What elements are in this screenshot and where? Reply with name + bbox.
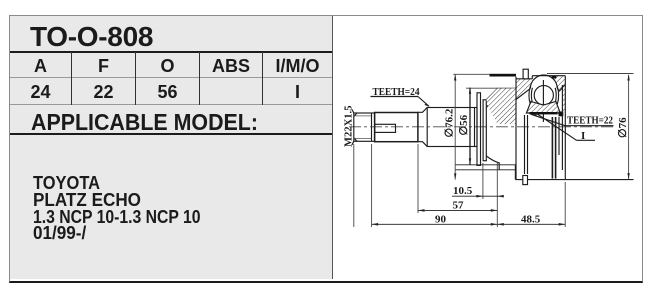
value O 56 [136,83,199,101]
dim 56 top extension [466,87,498,89]
TEETH=22 underline [565,125,614,127]
table line under APPLICABLE MODEL [10,133,332,135]
table line under values row [10,104,332,105]
column divider 2 [135,52,136,105]
thread minor diameter lines [354,115,372,117]
value A 24 [10,83,71,101]
bottom tab [523,176,528,185]
column divider 4 [262,52,263,105]
inner shaft lines [524,115,526,174]
bell top step [531,76,533,79]
bell main top line [532,75,565,77]
table line under header row [10,77,332,78]
svg-text:48.5: 48.5 [521,214,541,226]
mouth groove dark double lines [551,117,553,179]
dim line 48.5 [497,223,565,225]
mid cylinder [427,108,477,147]
header O [136,57,199,75]
keyway slot [375,124,396,132]
leader TEETH=24 slant [418,97,429,107]
extension line from spline end [417,144,419,213]
dim 76 top extension [547,73,634,75]
dim 76 arrows [627,74,629,80]
bell bottom line with dim76 extension [516,179,634,181]
title TO-O-808 [30,23,153,51]
bell mouth face [564,76,566,180]
ball [534,86,553,105]
stub chamfer bottom [354,138,357,142]
cone top slant [486,89,497,100]
step to mid cylinder top [418,108,427,113]
extension line from bell back [496,162,498,227]
svg-text:10.5: 10.5 [453,185,473,197]
svg-text:57: 57 [453,200,465,212]
svg-text:∅76: ∅76 [617,117,629,138]
ball track ceiling arc [530,75,557,88]
svg-text:TEETH=24: TEETH=24 [373,86,420,98]
extension line from thread end [371,144,373,227]
svg-text:M22X1.5: M22X1.5 [343,105,355,147]
dim 76.2 top extension line [453,73,490,75]
dim line 10.5 [452,195,502,197]
hatched cone and back wall section [486,88,516,124]
dim 56 vertical line [469,88,471,165]
thread tick marks at stub face [352,110,354,114]
leader I [535,113,577,141]
boot band (top, black) [490,74,517,77]
header ABS [200,57,262,75]
inner race hatched [526,102,560,114]
svg-text:∅56: ∅56 [458,114,470,135]
svg-text:90: 90 [435,214,447,226]
thread groove [371,113,373,141]
inner race spline dark band [530,112,558,114]
bell outer wall hatched section [516,75,565,111]
threaded stub M22 [354,113,375,141]
extension line from flange face [482,163,484,199]
value F 22 [72,83,135,101]
column divider 3 [199,52,200,105]
APPLICABLE MODEL heading [31,111,258,134]
dim line 90 [372,223,498,225]
header F [72,57,135,75]
bell back vertical [515,77,517,180]
dim 76.2 vertical line [454,74,456,179]
leader TEETH=24 underline [371,96,419,98]
dim 76.2 arrows [454,74,456,80]
cage right arcs [555,86,558,104]
groove surface right of band [516,78,532,80]
bottom boot groove lines [455,164,515,166]
mouth bore line [561,85,563,170]
extension line from stub end [353,144,355,227]
bottom step to bell [515,165,517,180]
ball meridian line [542,80,544,122]
bell cavity boundary back [516,88,530,99]
left gray panel [10,16,333,279]
applicable model text block [33,175,224,242]
column divider 1 [71,52,72,105]
bottom cone curve [486,156,499,170]
svg-text:∅76.2: ∅76.2 [444,108,456,137]
circlip line on mid cylinder [474,108,476,147]
I underline [576,139,595,141]
cage left arcs [529,86,532,104]
step to mid cylinder bottom [418,142,427,147]
top tab (boot clamp ear) [523,69,528,79]
stub chamfer top [354,113,357,117]
header A [10,57,71,75]
dim line 57 [418,209,497,211]
leader TEETH=22 [531,114,565,125]
boot groove cylinder top line [498,87,517,89]
dim 56 arrows [469,88,471,94]
spline section [375,113,418,142]
svg-text:I: I [581,130,585,142]
extension line from bell mouth [564,182,566,227]
flange disc 2 (boot seat ring) [483,100,486,161]
centerline [349,126,614,128]
header I/M/O [263,57,332,75]
dim 76 vertical line [628,75,630,179]
snap ring groove notch (top) [552,76,556,79]
mouth inner chamfer [557,85,565,91]
table line under title [10,51,332,53]
svg-text:TEETH=22: TEETH=22 [567,115,613,127]
snap ring inside mouth (dark) [559,112,564,117]
value I/M/O I [263,83,332,101]
flange disc 1 [477,93,481,166]
